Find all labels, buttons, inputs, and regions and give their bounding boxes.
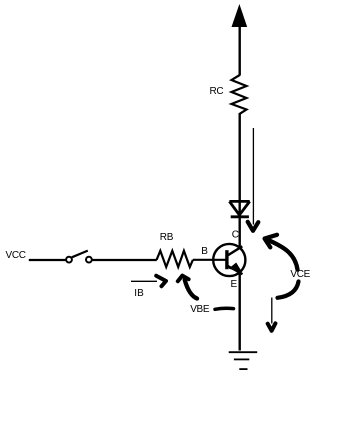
wire: emitter to ground bbox=[238, 274, 240, 351]
VBE curved arrow bbox=[185, 280, 197, 299]
switch S1 bbox=[66, 257, 72, 263]
resistor RB bbox=[157, 251, 193, 267]
wire: RB to base bbox=[193, 259, 226, 261]
svg-text:B: B bbox=[201, 246, 208, 257]
svg-text:RB: RB bbox=[160, 232, 174, 243]
ground bbox=[229, 352, 258, 369]
svg-text:C: C bbox=[232, 230, 239, 241]
svg-text:E: E bbox=[231, 279, 238, 290]
svg-text:IB: IB bbox=[134, 288, 144, 299]
VCE direction arrow (thin, down) bbox=[271, 298, 273, 324]
VCE curved arrow upper bbox=[266, 239, 298, 270]
svg-text:RC: RC bbox=[210, 86, 224, 97]
collector current arrow (thin, down) bbox=[252, 128, 254, 225]
svg-text:VBE: VBE bbox=[190, 304, 210, 315]
wire: switch to RB bbox=[93, 259, 157, 261]
supply arrow (VCC rail, up arrow) bbox=[232, 4, 248, 27]
diode D1 bbox=[229, 201, 249, 216]
svg-text:VCC: VCC bbox=[6, 250, 26, 261]
transistor Q1 (NPN) bbox=[213, 244, 245, 276]
resistor RC bbox=[232, 75, 247, 114]
IB arrow bbox=[131, 280, 157, 282]
VCE curved arrow lower bbox=[278, 282, 299, 298]
wire: RC bottom through diode to transistor collector bbox=[238, 113, 240, 248]
svg-text:VCE: VCE bbox=[290, 269, 310, 280]
wire: supply arrow to RC top bbox=[238, 26, 240, 76]
wire: VCC to switch bbox=[29, 259, 66, 261]
VBE dash bbox=[215, 308, 234, 309]
